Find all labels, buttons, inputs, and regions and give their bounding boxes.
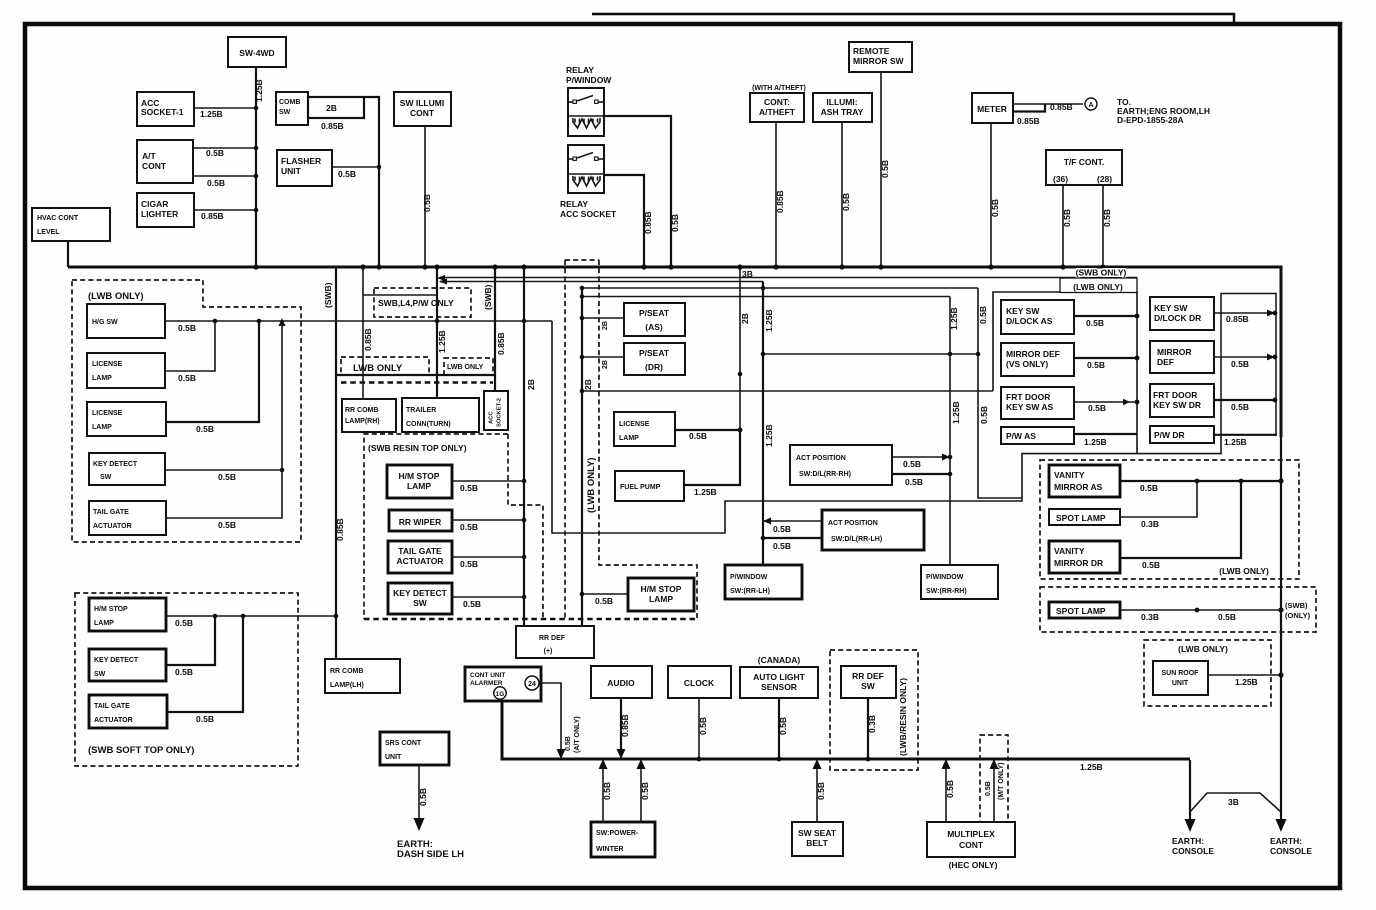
svg-text:KEY SW DR: KEY SW DR — [1153, 400, 1201, 410]
svg-text:CONSOLE: CONSOLE — [1270, 846, 1312, 856]
svg-text:RELAY: RELAY — [566, 65, 594, 75]
svg-text:0.5B: 0.5B — [880, 160, 890, 178]
box KEY DETECT SW — [89, 453, 165, 485]
wire multiplex left — [945, 762, 947, 822]
box FRT DOOR KEY SW AS — [1001, 387, 1074, 419]
box SW SEAT BELT — [792, 822, 843, 856]
svg-text:0.5B: 0.5B — [460, 522, 478, 532]
svg-text:SW: SW — [100, 474, 112, 481]
wire auto light sensor — [778, 698, 780, 759]
svg-text:1.25B: 1.25B — [1080, 762, 1103, 772]
svg-text:(SWB): (SWB) — [1285, 601, 1308, 610]
svg-text:KEY SW AS: KEY SW AS — [1006, 402, 1054, 412]
svg-text:0.5B: 0.5B — [670, 214, 680, 232]
svg-text:0.5B: 0.5B — [196, 424, 214, 434]
wire tail gate actuator 2 — [452, 556, 524, 558]
box ACT POSITION SW:D/L(RR-LH) — [822, 510, 924, 550]
svg-text:0.85B: 0.85B — [335, 518, 345, 541]
svg-text:RR DEF: RR DEF — [852, 671, 884, 681]
svg-text:LAMP: LAMP — [92, 424, 112, 431]
wire frt door key sw dr — [1214, 399, 1275, 401]
svg-text:(HEC ONLY): (HEC ONLY) — [949, 860, 998, 870]
box SUN ROOF UNIT — [1153, 661, 1208, 695]
svg-text:1.25B: 1.25B — [949, 307, 959, 330]
wire vertical 1.25B to TRAILER CONN — [436, 267, 438, 398]
wire multiplex right — [993, 762, 995, 822]
wire sw power left — [602, 762, 604, 822]
box RR DEF — [516, 626, 594, 658]
wire clock — [698, 698, 700, 759]
svg-text:UNIT: UNIT — [281, 166, 302, 176]
wire 1.25B vertical x763 — [762, 282, 764, 566]
svg-text:LIGHTER: LIGHTER — [141, 209, 178, 219]
dashed tall box LWB ONLY column — [564, 260, 566, 619]
box COMB SW — [276, 92, 308, 125]
svg-text:(SWB): (SWB) — [323, 282, 333, 308]
top edge artifact line — [592, 14, 1234, 22]
svg-text:0.5B: 0.5B — [565, 736, 572, 751]
wire key sw d/lock as — [1074, 315, 1137, 317]
wire hg-sw long path — [552, 321, 1221, 533]
svg-text:SW: SW — [413, 598, 428, 608]
box SRS CONT UNIT — [380, 732, 449, 765]
svg-text:(CANADA): (CANADA) — [758, 655, 801, 665]
svg-text:CIGAR: CIGAR — [141, 199, 168, 209]
svg-text:SPOT LAMP: SPOT LAMP — [1056, 513, 1106, 523]
svg-text:LAMP: LAMP — [94, 620, 114, 627]
svg-text:0.85B: 0.85B — [363, 328, 373, 351]
box ACT POSITION SW:D/L(RR-RH) — [790, 445, 892, 485]
svg-text:0.5B: 0.5B — [1140, 483, 1158, 493]
wire comb sw to vertical — [364, 97, 379, 266]
box KEY DETECT SW 2 — [388, 583, 452, 614]
svg-text:RR WIPER: RR WIPER — [399, 517, 442, 527]
box VANITY MIRROR AS — [1049, 465, 1120, 497]
wire sun roof unit — [1208, 674, 1281, 676]
svg-text:RELAY: RELAY — [560, 199, 588, 209]
svg-text:H/G SW: H/G SW — [92, 319, 118, 326]
dashed box vanity LWB ONLY — [1040, 460, 1299, 579]
wire 0.5B vertical x978 — [978, 288, 1022, 498]
box CONT: A/THEFT — [750, 93, 804, 122]
dashed box sun roof LWB ONLY — [1144, 640, 1271, 706]
box RR DEF SW — [841, 666, 896, 698]
svg-text:ACT POSITION: ACT POSITION — [828, 520, 878, 527]
svg-text:0.5B: 0.5B — [816, 782, 826, 800]
svg-text:UNIT: UNIT — [385, 754, 402, 761]
svg-text:ILLUMI:: ILLUMI: — [826, 97, 857, 107]
3B merge symbol — [1190, 793, 1281, 812]
svg-text:0.5B: 0.5B — [773, 541, 791, 551]
svg-text:CONT: CONT — [959, 840, 984, 850]
svg-text:SW:(RR-RH): SW:(RR-RH) — [926, 588, 967, 595]
sub bus B y281.5 — [440, 281, 763, 283]
sub bus D y296.5 — [582, 296, 950, 298]
svg-text:CLOCK: CLOCK — [684, 678, 715, 688]
svg-text:0.5B: 0.5B — [985, 781, 992, 796]
dashed group box SWB SOFT TOP ONLY — [75, 593, 298, 766]
box TAIL GATE ACTUATOR 2 — [388, 541, 452, 573]
svg-text:0.3B: 0.3B — [867, 715, 877, 733]
svg-text:0.5B: 0.5B — [460, 483, 478, 493]
svg-text:SW·4WD: SW·4WD — [239, 48, 274, 58]
svg-text:1.25B: 1.25B — [200, 109, 223, 119]
wire HVAC to bus corner — [67, 241, 69, 267]
box FRT DOOR KEY SW DR — [1150, 384, 1214, 417]
svg-text:LAMP: LAMP — [92, 375, 112, 382]
svg-text:RR COMB: RR COMB — [345, 407, 378, 414]
box A/T CONT — [137, 140, 193, 183]
svg-text:P/WINDOW: P/WINDOW — [926, 574, 964, 581]
wire FLASHER UNIT — [332, 166, 379, 168]
svg-text:EARTH:: EARTH: — [1172, 836, 1204, 846]
svg-text:LWB ONLY: LWB ONLY — [353, 363, 403, 374]
box ACC SOCKET-2 — [484, 391, 508, 430]
svg-text:0.85B: 0.85B — [1050, 102, 1073, 112]
wire spot lamp swb — [1120, 609, 1281, 611]
wire key detect sw — [165, 469, 282, 471]
svg-text:0.5B: 0.5B — [1088, 403, 1106, 413]
svg-text:MIRROR DR: MIRROR DR — [1054, 558, 1103, 568]
svg-text:ACC SOCKET: ACC SOCKET — [560, 209, 617, 219]
box RR COMB LAMP(LH) — [325, 659, 400, 693]
box SW POWER-WINTER — [591, 822, 655, 857]
wire p/w as — [1074, 433, 1137, 435]
svg-text:0.5B: 0.5B — [1231, 359, 1249, 369]
bus junction dots — [253, 264, 258, 269]
svg-text:0.5B: 0.5B — [905, 477, 923, 487]
box CLOCK — [668, 666, 731, 698]
svg-text:0.5B: 0.5B — [1142, 560, 1160, 570]
svg-text:CONT UNIT: CONT UNIT — [470, 672, 505, 679]
wire sw power right — [640, 762, 642, 822]
wire SW-4WD to bus — [255, 67, 257, 266]
box VANITY MIRROR DR — [1049, 541, 1120, 573]
svg-text:A/THEFT: A/THEFT — [759, 107, 796, 117]
wire remote mirror sw — [880, 72, 882, 266]
svg-text:0.5B: 0.5B — [196, 714, 214, 724]
svg-text:SENSOR: SENSOR — [761, 682, 797, 692]
wire act position rr-rh upper — [892, 456, 950, 458]
box HVAC CONT LEVEL — [32, 208, 110, 241]
svg-text:(SWB): (SWB) — [483, 284, 493, 310]
svg-text:LAMP: LAMP — [407, 481, 431, 491]
svg-text:LAMP: LAMP — [649, 594, 673, 604]
wire ACC SOCKET-1 — [194, 107, 256, 109]
wire p/seat dr — [582, 356, 624, 358]
svg-text:MIRROR: MIRROR — [1157, 347, 1191, 357]
svg-text:COMB: COMB — [279, 99, 300, 106]
svg-text:0.5B: 0.5B — [945, 780, 955, 798]
svg-text:1.25B: 1.25B — [254, 79, 264, 102]
svg-text:0.5B: 0.5B — [979, 406, 989, 424]
svg-text:0.5B: 0.5B — [903, 459, 921, 469]
box RR WIPER — [389, 510, 452, 531]
svg-text:ACTUATOR: ACTUATOR — [397, 556, 444, 566]
svg-text:(LWB ONLY): (LWB ONLY) — [586, 457, 597, 513]
svg-text:0.3B: 0.3B — [1141, 519, 1159, 529]
svg-text:D/LOCK AS: D/LOCK AS — [1006, 316, 1053, 326]
wire rr def sw — [867, 698, 869, 759]
svg-text:LWB ONLY: LWB ONLY — [447, 364, 484, 371]
dashed box M/T ONLY — [980, 735, 1008, 822]
wire license lamp 1 — [165, 321, 215, 371]
wire vertical 0.85B to RR COMB LAMP RH — [362, 267, 364, 399]
wire p/w dr — [1214, 434, 1277, 436]
svg-text:H/M STOP: H/M STOP — [94, 606, 128, 613]
box TRAILER CONN(TURN) — [402, 398, 479, 432]
svg-text:LICENSE: LICENSE — [619, 421, 650, 428]
svg-text:D/LOCK DR: D/LOCK DR — [1154, 313, 1201, 323]
svg-text:0.85B: 0.85B — [620, 714, 630, 737]
wire illumi ash tray — [841, 122, 843, 266]
svg-text:KEY SW: KEY SW — [1154, 303, 1188, 313]
svg-text:LAMP(LH): LAMP(LH) — [330, 682, 364, 689]
svg-text:A/T: A/T — [142, 151, 157, 161]
svg-text:SPOT LAMP: SPOT LAMP — [1056, 606, 1106, 616]
wire sw seat belt — [816, 762, 818, 822]
svg-text:KEY DETECT: KEY DETECT — [94, 657, 139, 664]
svg-text:(36): (36) — [1053, 174, 1068, 184]
wire mirror def vs only — [1074, 357, 1137, 359]
box H/G SW — [87, 304, 165, 338]
wire meter to bus — [990, 123, 992, 266]
svg-text:CONSOLE: CONSOLE — [1172, 846, 1214, 856]
svg-text:2B: 2B — [583, 379, 593, 390]
svg-text:SW:POWER-: SW:POWER- — [596, 830, 639, 837]
svg-text:BELT: BELT — [806, 838, 828, 848]
box AUDIO — [591, 666, 652, 698]
wire act position rr-lh upper — [763, 520, 822, 522]
dashed box LWB/RESIN ONLY — [830, 650, 918, 770]
main bus 3B — [68, 267, 1281, 437]
wire H/G SW — [165, 320, 552, 322]
svg-text:VANITY: VANITY — [1054, 546, 1085, 556]
svg-text:SW: SW — [861, 681, 876, 691]
svg-text:TRAILER: TRAILER — [406, 407, 436, 414]
dashed group box LWB ONLY left — [72, 280, 301, 542]
wire SWB vertical left 0.85B — [335, 267, 337, 659]
svg-text:ACTUATOR: ACTUATOR — [94, 717, 133, 724]
box SW ILLUMI CONT — [394, 92, 451, 126]
svg-text:SW ILLUMI: SW ILLUMI — [400, 98, 444, 108]
svg-text:SWB,L4,P/W ONLY: SWB,L4,P/W ONLY — [378, 298, 454, 308]
wire vanity mirror dr — [1120, 481, 1241, 558]
svg-text:SW: SW — [94, 671, 106, 678]
relay P/WINDOW symbol — [568, 88, 604, 136]
sub bus C y288 — [582, 287, 978, 289]
box P/SEAT (AS) — [624, 303, 685, 336]
svg-text:P/W DR: P/W DR — [1154, 430, 1185, 440]
wire key sw d/lock dr — [1214, 312, 1275, 314]
svg-text:H/M STOP: H/M STOP — [641, 584, 682, 594]
svg-text:0.5B: 0.5B — [418, 788, 428, 806]
svg-text:KEY DETECT: KEY DETECT — [93, 461, 138, 468]
svg-text:SUN ROOF: SUN ROOF — [1162, 670, 1200, 677]
box P/W DR — [1150, 426, 1214, 443]
wire CIGAR LIGHTER — [194, 209, 256, 211]
sub bus A y278 — [440, 277, 1137, 279]
wire act position rr-lh lower — [763, 537, 822, 539]
svg-text:MIRROR AS: MIRROR AS — [1054, 482, 1103, 492]
box KEY SW D/LOCK AS — [1001, 300, 1074, 334]
box LICENSE LAMP 2 — [87, 402, 166, 436]
wire p/seat as — [582, 317, 624, 319]
wire license lamp 2 — [166, 321, 259, 422]
svg-text:FRT DOOR: FRT DOOR — [1006, 392, 1050, 402]
svg-text:SRS CONT: SRS CONT — [385, 740, 422, 747]
box P/WINDOW SW:(RR-LH) — [725, 565, 802, 599]
svg-text:(SWB RESIN TOP ONLY): (SWB RESIN TOP ONLY) — [368, 443, 467, 453]
svg-text:0.5B: 0.5B — [218, 520, 236, 530]
svg-text:(LWB ONLY): (LWB ONLY) — [1073, 282, 1123, 292]
svg-text:0.5B: 0.5B — [175, 667, 193, 677]
box T/F CONT — [1046, 150, 1122, 185]
svg-text:1.25B: 1.25B — [437, 330, 447, 353]
svg-text:1.25B: 1.25B — [1084, 437, 1107, 447]
svg-text:(SWB SOFT TOP ONLY): (SWB SOFT TOP ONLY) — [88, 745, 194, 756]
box REMOTE MIRROR SW — [849, 42, 912, 72]
svg-text:0.5B: 0.5B — [689, 431, 707, 441]
box AUTO LIGHT SENSOR — [740, 667, 818, 698]
svg-text:(AS): (AS) — [645, 322, 663, 332]
wire 2B vertical x524 — [523, 267, 525, 626]
svg-text:2B: 2B — [602, 321, 609, 330]
svg-text:LEVEL: LEVEL — [37, 229, 60, 236]
box TAIL GATE ACTUATOR soft — [89, 695, 167, 728]
wire relay p/window — [604, 116, 671, 266]
svg-text:SOCKET-1: SOCKET-1 — [141, 107, 184, 117]
svg-text:0.5B: 0.5B — [218, 472, 236, 482]
box SPOT LAMP as — [1049, 509, 1120, 525]
svg-text:0.5B: 0.5B — [841, 193, 851, 211]
box H/M STOP LAMP lwb — [628, 578, 694, 611]
svg-text:T/F CONT.: T/F CONT. — [1064, 157, 1105, 167]
LWB group loop — [993, 292, 1137, 453]
wire tail gate actuator soft — [167, 616, 243, 712]
svg-text:(LWB ONLY): (LWB ONLY) — [88, 291, 144, 302]
box ILLUMI: ASH TRAY — [813, 93, 872, 122]
svg-text:(M/T ONLY): (M/T ONLY) — [998, 763, 1005, 800]
svg-text:(+): (+) — [544, 648, 553, 655]
svg-text:0.5B: 0.5B — [422, 194, 432, 212]
svg-text:0.85B: 0.85B — [201, 211, 224, 221]
dashed box spot lamp swb — [1040, 587, 1316, 632]
svg-text:0.5B: 0.5B — [698, 717, 708, 735]
svg-text:0.5B: 0.5B — [640, 782, 650, 800]
box P/SEAT (DR) — [624, 343, 685, 375]
connector rect tall — [1221, 294, 1276, 435]
wire vanity mirror as — [1120, 480, 1281, 482]
svg-text:WINTER: WINTER — [596, 846, 624, 853]
svg-text:KEY SW: KEY SW — [1006, 306, 1040, 316]
svg-text:(SWB ONLY): (SWB ONLY) — [1076, 268, 1127, 278]
svg-text:0.5B: 0.5B — [1087, 360, 1105, 370]
wire t/f cont 28 — [1102, 185, 1104, 266]
svg-text:3B: 3B — [1228, 797, 1239, 807]
box KEY DETECT SW soft — [89, 649, 166, 681]
svg-text:P/SEAT: P/SEAT — [639, 348, 670, 358]
wire cross link y375 — [336, 374, 495, 376]
box KEY SW D/LOCK DR — [1150, 297, 1214, 330]
svg-text:(VS ONLY): (VS ONLY) — [1006, 359, 1048, 369]
dashed group box SWB RESIN TOP ONLY — [364, 434, 508, 619]
svg-text:1.25B: 1.25B — [1235, 677, 1258, 687]
wire 1.25B vertical x950 — [949, 297, 951, 566]
wire bus y391 — [582, 390, 993, 392]
svg-text:1.25B: 1.25B — [694, 487, 717, 497]
dashed label box LWB ONLY b — [444, 358, 493, 375]
svg-text:FUEL PUMP: FUEL PUMP — [620, 484, 661, 491]
wire frt door key sw as — [1074, 401, 1137, 403]
box CONT UNIT ALARMER — [465, 667, 541, 701]
svg-text:KEY DETECT: KEY DETECT — [393, 588, 447, 598]
label box (LWB ONLY) — [1060, 278, 1137, 293]
svg-text:METER: METER — [977, 104, 1007, 114]
box CIGAR LIGHTER — [137, 193, 194, 227]
box P/WINDOW SW:(RR-RH) — [921, 565, 998, 599]
box SPOT LAMP swb — [1049, 602, 1120, 618]
svg-text:0.5B: 0.5B — [178, 373, 196, 383]
bottom bus — [502, 701, 1190, 759]
svg-text:1.25B: 1.25B — [764, 309, 774, 332]
heavy dashed y382 — [341, 381, 493, 384]
wire license lamp 3 — [675, 429, 740, 431]
svg-text:DASH SIDE LH: DASH SIDE LH — [397, 849, 464, 860]
svg-text:(DR): (DR) — [645, 362, 663, 372]
svg-text:24: 24 — [528, 681, 536, 688]
svg-text:(LWB ONLY): (LWB ONLY) — [1219, 566, 1269, 576]
box MIRROR DEF dr — [1150, 341, 1214, 373]
svg-text:0.5B: 0.5B — [990, 199, 1000, 217]
svg-text:ASH TRAY: ASH TRAY — [821, 107, 864, 117]
svg-text:0.5B: 0.5B — [773, 524, 791, 534]
svg-text:ALARMER: ALARMER — [470, 680, 503, 687]
wire audio — [620, 698, 622, 756]
main right vertical to earth — [1280, 267, 1282, 822]
wire tail gate actuator — [166, 470, 282, 518]
svg-text:0.5B: 0.5B — [595, 596, 613, 606]
svg-text:P/WINDOW: P/WINDOW — [566, 75, 612, 85]
svg-text:D-EPD-1855-28A: D-EPD-1855-28A — [1117, 115, 1184, 125]
svg-text:0.3B: 0.3B — [1141, 612, 1159, 622]
svg-text:0.5B: 0.5B — [1102, 209, 1112, 227]
box RR COMB LAMP(RH) — [342, 399, 396, 432]
relay ACC SOCKET symbol — [568, 145, 604, 193]
earth console arrows — [1276, 819, 1287, 832]
heavy dashed bottom y619 — [364, 618, 697, 621]
wire srs earth arrow — [418, 765, 420, 824]
svg-text:0.5B: 0.5B — [602, 782, 612, 800]
box TAIL GATE ACTUATOR — [89, 501, 166, 535]
svg-text:ACT POSITION: ACT POSITION — [796, 455, 846, 462]
svg-text:0.5B: 0.5B — [1086, 318, 1104, 328]
svg-text:CONT:: CONT: — [764, 97, 790, 107]
svg-text:(A/T ONLY): (A/T ONLY) — [574, 716, 581, 753]
svg-text:2B: 2B — [602, 360, 609, 369]
svg-text:1.25B: 1.25B — [951, 401, 961, 424]
svg-text:(28): (28) — [1097, 174, 1112, 184]
svg-text:MULTIPLEX: MULTIPLEX — [947, 829, 995, 839]
wire act position rr-rh lower — [892, 473, 950, 475]
svg-text:0.5B: 0.5B — [778, 717, 788, 735]
wire 2B vertical x582 — [581, 288, 583, 626]
svg-text:2B: 2B — [740, 313, 750, 324]
box H/M STOP LAMP soft — [89, 598, 166, 631]
svg-text:CONT: CONT — [410, 108, 435, 118]
svg-text:TAIL GATE: TAIL GATE — [94, 703, 130, 710]
svg-text:(LWB/RESIN ONLY): (LWB/RESIN ONLY) — [898, 678, 908, 756]
